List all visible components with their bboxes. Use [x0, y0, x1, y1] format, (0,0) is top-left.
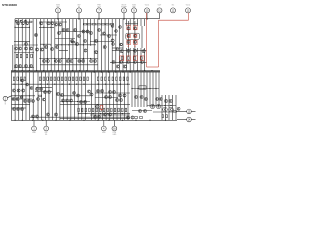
wire	[129, 19, 131, 26]
resistor R22	[39, 77, 41, 81]
transistor Q79	[12, 89, 15, 92]
highlight junction (red) lower	[101, 109, 102, 110]
transistor Q26	[94, 39, 97, 42]
bus segment	[95, 92, 130, 94]
junction	[29, 95, 30, 96]
resistor R30	[69, 77, 71, 81]
transistor Q63	[93, 59, 96, 62]
junction	[146, 18, 147, 19]
transistor Q123	[20, 107, 23, 110]
transistor Q50	[14, 47, 17, 50]
pin 2 label	[4, 102, 6, 106]
pin 10 label	[145, 5, 150, 7]
junction	[58, 70, 59, 71]
transistor Q93	[56, 92, 59, 95]
resistor R7	[106, 23, 109, 25]
junction	[13, 84, 14, 85]
bus segment	[12, 107, 27, 109]
pin 6 stub wire	[78, 13, 80, 19]
transistor Q81	[22, 89, 25, 92]
wire	[25, 72, 27, 120]
wire	[37, 72, 39, 120]
transistor Q10	[54, 23, 57, 26]
wire	[136, 48, 138, 71]
bus segment	[14, 44, 38, 46]
junction	[22, 27, 23, 28]
junction	[90, 58, 91, 59]
svg-text:VCC2: VCC2	[186, 5, 191, 7]
svg-text:FIL: FIL	[45, 134, 47, 136]
wire	[152, 72, 154, 107]
highlight box (red) 1	[127, 26, 131, 30]
resistor R57	[118, 108, 120, 112]
bus segment	[55, 44, 96, 46]
junction	[72, 70, 73, 71]
wire	[104, 19, 106, 71]
wire	[18, 19, 20, 71]
resistor R4	[92, 23, 95, 25]
highlight box (red) 7	[120, 56, 124, 61]
bus segment	[14, 52, 34, 54]
transistor Q69	[18, 64, 21, 67]
junction	[94, 71, 95, 72]
junction	[47, 84, 48, 85]
junction	[149, 120, 150, 121]
junction	[47, 58, 48, 59]
pin 16	[112, 126, 117, 131]
transistor Q66	[133, 49, 136, 52]
transistor Q45	[133, 27, 136, 30]
transistor Q11	[58, 23, 61, 26]
pin 3 stub wire	[45, 120, 47, 126]
pin 8 stub wire	[123, 13, 125, 19]
junction	[22, 95, 23, 96]
wire	[168, 95, 170, 120]
wire	[127, 72, 129, 120]
junction	[155, 88, 156, 89]
transistor Q2	[21, 22, 24, 25]
resistor R31	[72, 77, 74, 81]
transistor Q8	[47, 22, 50, 25]
junction	[43, 70, 44, 71]
junction	[68, 58, 69, 59]
wire	[127, 21, 129, 57]
bus segment	[95, 97, 118, 99]
junction	[29, 70, 30, 71]
wire	[83, 19, 85, 71]
transistor Q102	[27, 99, 30, 102]
pin 4	[101, 126, 106, 131]
transistor Q48	[127, 40, 130, 43]
wire	[175, 95, 177, 120]
bus segment	[147, 105, 176, 107]
resistor R27	[58, 77, 60, 81]
pin 11 label	[158, 5, 162, 7]
bus segment	[36, 87, 52, 89]
wire	[14, 72, 16, 120]
junction	[122, 113, 123, 114]
wire	[14, 19, 16, 71]
transistor Q30	[89, 31, 92, 34]
highlighted trace (red) vertical	[158, 20, 160, 67]
transistor Q96	[76, 94, 79, 97]
wire	[122, 19, 124, 71]
transistor Q83	[26, 83, 29, 86]
transistor Q97	[87, 90, 90, 93]
junction	[36, 70, 37, 71]
transistor Q27	[57, 31, 60, 34]
transistor Q14	[82, 30, 85, 33]
bus segment	[14, 67, 34, 69]
transistor Q128	[164, 99, 167, 102]
bus segment	[40, 64, 98, 66]
junction	[135, 120, 136, 121]
highlight junction (red)	[128, 46, 129, 47]
transistor Q120	[144, 97, 147, 100]
transistor Q140	[93, 115, 96, 118]
junction	[143, 88, 144, 89]
pin 11	[157, 8, 162, 13]
wire	[59, 72, 61, 120]
transistor Q87	[43, 90, 46, 93]
junction	[170, 105, 171, 106]
transistor Q74	[112, 61, 115, 64]
transistor Q89	[96, 89, 99, 92]
junction	[68, 44, 69, 45]
wire	[165, 95, 167, 120]
wire	[155, 72, 157, 107]
wire	[79, 19, 81, 71]
resistor R46	[78, 108, 80, 112]
wire	[129, 48, 131, 71]
transistor Q107	[61, 99, 64, 102]
junction	[78, 18, 79, 19]
bus segment	[40, 58, 98, 60]
transistor Q29	[77, 34, 80, 37]
junction	[21, 84, 22, 85]
wire	[43, 19, 45, 71]
transistor Q100	[16, 97, 19, 100]
transistor Q61	[82, 59, 85, 62]
transistor Q40	[94, 51, 97, 54]
wire	[28, 19, 30, 71]
junction	[77, 101, 78, 102]
resistor R32	[76, 77, 78, 81]
resistor R38	[105, 77, 107, 81]
transistor Q121	[12, 107, 15, 110]
pin 7 stub wire	[98, 13, 100, 19]
transistor Q37	[50, 47, 53, 50]
junction	[133, 18, 134, 19]
wire	[32, 72, 34, 120]
wire	[74, 72, 76, 120]
highlight junction (red)	[134, 46, 135, 47]
transistor Q18	[107, 34, 110, 37]
resistor R18	[13, 77, 15, 81]
junction	[90, 44, 91, 45]
junction	[69, 84, 70, 85]
transistor Q67	[142, 50, 145, 53]
resistor R13	[31, 54, 33, 58]
bottom ground rail	[11, 119, 177, 121]
junction	[57, 18, 58, 19]
bus segment	[125, 23, 138, 25]
transistor Q88	[47, 90, 50, 93]
transistor Q135	[126, 116, 129, 119]
highlighted trace (red) stub at pin 13	[188, 13, 190, 20]
bus segment	[60, 103, 130, 105]
transistor Q119	[140, 95, 143, 98]
bus segment	[40, 43, 51, 45]
highlight box (red) lower	[100, 105, 103, 109]
junction	[40, 58, 41, 59]
wire	[55, 72, 57, 120]
wire	[68, 19, 70, 71]
wire	[63, 72, 65, 120]
transistor Q136	[131, 116, 134, 119]
pin 16 label	[113, 132, 118, 136]
transistor Q80	[17, 89, 20, 92]
pin 5	[56, 8, 61, 13]
junction	[61, 44, 62, 45]
resistor R63	[134, 117, 137, 119]
bus segment	[153, 111, 177, 113]
resistor R47	[81, 108, 83, 112]
resistor R23	[43, 77, 45, 81]
junction	[70, 101, 71, 102]
junction	[97, 84, 98, 85]
junction	[98, 18, 99, 19]
junction	[32, 120, 33, 121]
bus segment	[60, 101, 90, 103]
transistor Q72	[116, 65, 119, 68]
pin 14 (out-)	[187, 117, 192, 122]
highlighted trace (red) horizontal to pin 13	[159, 19, 189, 21]
wire	[93, 19, 95, 71]
transistor Q82	[21, 79, 24, 82]
resistor R20	[20, 77, 22, 81]
transistor Q145	[108, 113, 111, 116]
resistor R39	[108, 77, 110, 81]
pin 12 label	[172, 5, 175, 7]
transistor Q132	[159, 98, 162, 101]
transistor Q101	[23, 99, 26, 102]
transistor Q42	[35, 48, 38, 51]
component box U1	[126, 33, 140, 39]
bus segment	[12, 83, 131, 85]
junction	[164, 105, 165, 106]
junction	[69, 120, 70, 121]
node pin10-rail junction	[146, 18, 147, 19]
top supply rail	[15, 18, 160, 20]
transistor Q78	[141, 61, 144, 64]
pin 15 wire	[176, 110, 187, 112]
wire	[41, 72, 43, 120]
junction	[151, 70, 152, 71]
transistor Q64	[120, 50, 123, 53]
resistor R12	[26, 54, 28, 58]
wire	[47, 19, 49, 71]
transistor Q15	[86, 30, 89, 33]
wire	[90, 19, 92, 45]
transistor Q28	[73, 28, 76, 31]
pin 14 wire	[177, 119, 187, 121]
resistor R16	[134, 57, 136, 60]
pin 15 outer stub	[191, 110, 195, 112]
bus segment	[39, 26, 54, 28]
junction	[78, 113, 79, 114]
pin 1 label	[32, 132, 37, 134]
wire	[21, 72, 23, 120]
wire	[116, 72, 118, 120]
node pin6-rail junction	[78, 18, 79, 19]
resistor R11	[20, 54, 22, 58]
transistor Q19	[111, 39, 114, 42]
transistor Q73	[123, 65, 126, 68]
transistor Q5	[20, 20, 22, 23]
pin 7 label	[97, 5, 101, 9]
transistor Q143	[54, 113, 57, 116]
transistor Q12	[62, 28, 65, 31]
wire	[65, 19, 67, 71]
transistor Q141	[97, 115, 100, 118]
junction	[29, 27, 30, 28]
transistor Q41	[103, 45, 106, 48]
transistor Q90	[100, 89, 103, 92]
wire	[81, 72, 83, 120]
highlight box (red) 8	[127, 56, 131, 61]
junction	[83, 84, 84, 85]
transistor Q133	[138, 109, 141, 112]
bus segment	[112, 49, 147, 51]
transistor Q71	[29, 64, 32, 67]
transistor Q59	[70, 59, 73, 62]
junction	[61, 84, 62, 85]
junction	[101, 71, 102, 72]
pin 8 label	[121, 5, 128, 9]
node pin5-rail junction	[57, 18, 58, 19]
junction	[122, 120, 123, 121]
resistor R49	[89, 108, 91, 112]
wire	[137, 72, 139, 107]
resistor R50	[92, 108, 94, 112]
wire	[98, 72, 100, 120]
transistor Q98	[90, 93, 93, 96]
wire	[109, 72, 111, 120]
pin 9 stub wire	[133, 13, 135, 19]
transistor Q92	[112, 90, 115, 93]
highlighted trace (red) from pin 10	[146, 13, 148, 67]
wire	[111, 19, 113, 71]
junction	[158, 105, 159, 106]
transistor Q7	[40, 22, 43, 25]
resistor R26	[54, 77, 56, 81]
bus segment	[59, 50, 68, 52]
transistor Q47	[134, 34, 137, 37]
pin 4 label	[102, 132, 106, 134]
wire	[141, 26, 143, 48]
bus segment	[100, 34, 117, 36]
wire	[126, 48, 128, 71]
wire	[126, 19, 128, 26]
mid rail lower	[11, 71, 160, 73]
pin 5 stub wire	[57, 13, 59, 19]
bus segment	[132, 110, 152, 112]
bus segment	[78, 113, 130, 115]
pin 12	[171, 8, 176, 13]
pin 6	[77, 8, 82, 13]
junction	[97, 120, 98, 121]
transistor Q1	[16, 22, 19, 25]
wire	[100, 19, 102, 71]
resistor R21	[24, 77, 26, 81]
transistor Q124	[150, 104, 155, 109]
wire	[108, 19, 110, 71]
transistor Q138	[31, 115, 34, 118]
transistor Q49	[133, 40, 136, 43]
bus segment	[90, 114, 130, 116]
resistor R8	[110, 23, 113, 25]
transistor Q84	[30, 87, 33, 90]
resistor R41	[116, 77, 118, 81]
wire	[21, 19, 23, 71]
transistor Q13	[66, 28, 69, 31]
resistor R17	[141, 57, 143, 60]
transistor Q77	[133, 61, 136, 64]
transistor Q86	[39, 87, 42, 90]
wire	[149, 72, 151, 107]
transistor Q112	[115, 98, 118, 101]
wire	[52, 72, 54, 120]
wire	[133, 48, 135, 71]
wire	[115, 19, 117, 71]
mid rail upper	[11, 70, 160, 72]
junction	[107, 113, 108, 114]
pin 3 label	[45, 132, 49, 136]
transistor Q4	[15, 20, 17, 23]
transistor Q62	[90, 59, 93, 62]
transistor Q32	[102, 32, 105, 35]
transistor Q43	[40, 48, 43, 51]
pin 2 wire	[7, 96, 11, 98]
wire	[18, 72, 20, 120]
transistor Q20	[111, 25, 114, 28]
junction	[54, 58, 55, 59]
junction	[14, 70, 15, 71]
transistor Q25	[120, 43, 123, 46]
junction	[127, 84, 128, 85]
transistor Q68	[14, 64, 17, 67]
junction	[92, 113, 93, 114]
pin 11 stub wire	[159, 13, 161, 19]
resistor R42	[119, 77, 121, 81]
highlighted trace (red) horizontal lower	[147, 66, 159, 68]
transistor Q134	[143, 109, 146, 112]
junction	[108, 120, 109, 121]
svg-text:OUT: OUT	[158, 5, 162, 7]
svg-text:VCC1: VCC1	[145, 5, 150, 7]
wire	[54, 19, 56, 71]
resistor R29	[65, 77, 67, 81]
svg-text:STK4036II: STK4036II	[2, 3, 17, 7]
junction	[131, 88, 132, 89]
wire	[39, 19, 41, 71]
transistor Q109	[69, 99, 72, 102]
wire	[144, 48, 146, 71]
wire	[48, 72, 50, 120]
transistor Q113	[119, 98, 122, 101]
wire	[44, 72, 46, 120]
